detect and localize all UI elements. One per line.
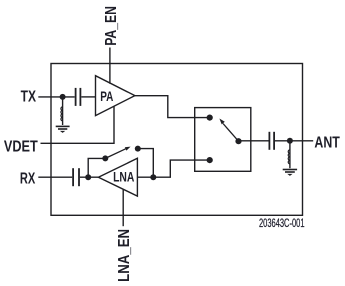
node switch common <box>235 138 241 144</box>
main box <box>51 64 303 216</box>
inductor ANT shunt <box>289 143 291 168</box>
node switch RX port <box>207 157 213 163</box>
node RX junction <box>85 174 91 180</box>
switch bypass arm <box>105 148 127 158</box>
svg-text:LNA_EN: LNA_EN <box>116 229 133 282</box>
node ANT junction <box>287 138 293 144</box>
svg-text:RX: RX <box>20 170 36 187</box>
inductor TX shunt <box>62 100 64 126</box>
wire bypass left riser <box>88 158 105 177</box>
capacitor ANT series <box>269 132 274 150</box>
wire cap to LNA apex <box>80 176 99 178</box>
svg-text:PA_EN: PA_EN <box>103 6 120 46</box>
wire RX input <box>38 176 72 178</box>
wire LNA input to switch box <box>137 160 209 177</box>
capacitor RX series <box>73 168 79 186</box>
wire TX input <box>38 96 74 98</box>
node LNA input junction <box>150 174 156 180</box>
wire cap to PA <box>81 96 95 98</box>
wire VDET <box>41 106 115 143</box>
wire cap to ANT <box>275 140 313 142</box>
switch arm antenna <box>223 124 239 142</box>
amplifier PA <box>96 76 135 116</box>
svg-text:VDET: VDET <box>4 138 38 155</box>
ground TX shunt <box>56 126 70 132</box>
svg-text:LNA: LNA <box>113 170 134 185</box>
node switch TX port <box>207 115 213 121</box>
svg-text:ANT: ANT <box>314 134 340 151</box>
wire switch to ANT <box>239 140 269 142</box>
ground ANT shunt <box>283 170 297 176</box>
node TX junction <box>60 94 66 100</box>
wire PA_EN <box>109 48 111 84</box>
wire LNA_EN <box>122 189 124 226</box>
wire bypass right drop <box>138 149 154 178</box>
capacitor TX series <box>76 88 81 106</box>
switch box <box>195 108 251 172</box>
svg-text:203643C-001: 203643C-001 <box>259 218 305 230</box>
svg-text:PA: PA <box>100 89 113 104</box>
node bypass right <box>135 146 141 152</box>
node bypass left <box>102 155 108 161</box>
wire PA to switch <box>135 96 210 118</box>
svg-text:TX: TX <box>21 88 37 105</box>
amplifier LNA <box>98 158 137 196</box>
